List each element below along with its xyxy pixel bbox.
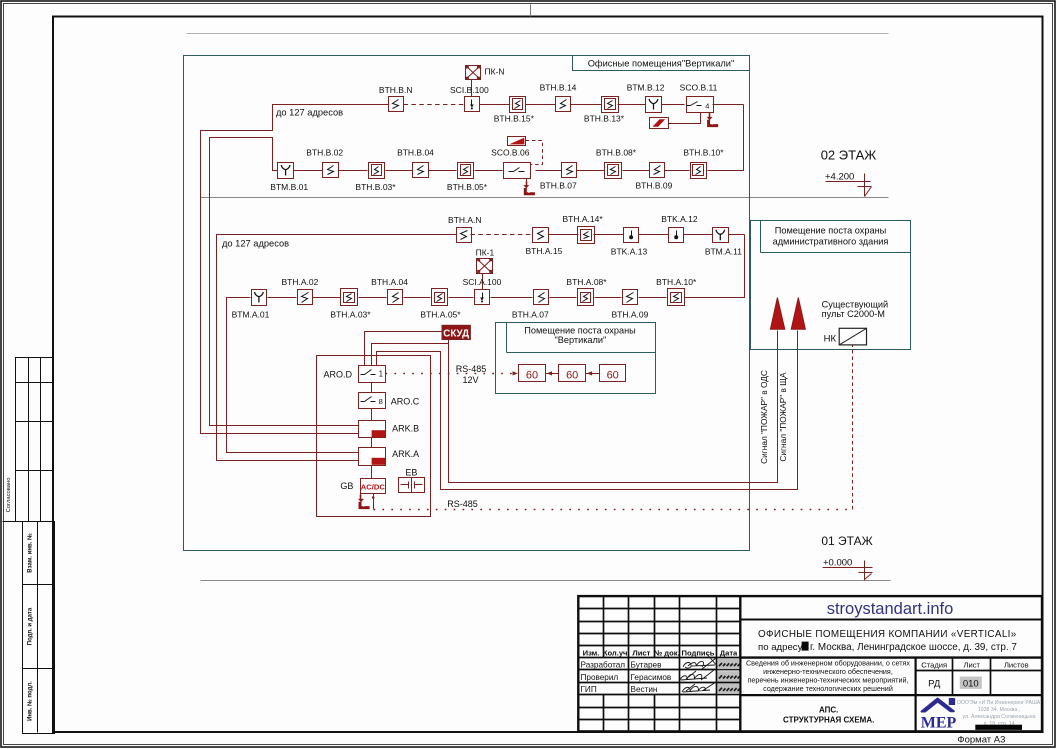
svg-text:BTM.B.01: BTM.B.01	[270, 182, 308, 192]
svg-text:РД: РД	[928, 679, 941, 690]
call point BTM.A.01	[252, 290, 267, 306]
svg-text:Проверил: Проверил	[581, 673, 619, 682]
svg-text:BTH.B.09: BTH.B.09	[635, 181, 672, 191]
manual call point ПК-N	[466, 66, 481, 80]
detector BTH.A.08*	[578, 289, 594, 306]
wire B1 dashed segment	[404, 104, 465, 106]
wire 60#3-60#2 arrow	[586, 373, 600, 375]
svg-text:Лист: Лист	[632, 648, 650, 657]
svg-text:г. Москва, Ленинградское шоссе: г. Москва, Ленинградское шоссе, д. 39, с…	[810, 642, 1017, 653]
detector BTH.B.08*	[605, 163, 622, 179]
wire 60#2-60#1 arrow	[546, 373, 559, 375]
svg-text:60: 60	[607, 369, 619, 381]
svg-text:до 127 адресов: до 127 адресов	[276, 108, 343, 118]
svg-text:+4.200: +4.200	[825, 172, 854, 183]
svg-text:Бутарев: Бутарев	[631, 660, 662, 669]
svg-text:BTH.A.08*: BTH.A.08*	[566, 277, 607, 287]
wire ARK.B-ARK.A	[371, 438, 373, 448]
relay НК box	[839, 328, 866, 345]
svg-text:BTK.A.13: BTK.A.13	[611, 246, 648, 256]
wire B2 segments	[294, 170, 323, 172]
svg-text:12V: 12V	[462, 375, 478, 385]
ground sounder below AC/DC	[360, 494, 362, 497]
svg-text:SCI.B.100: SCI.B.100	[450, 85, 489, 95]
svg-text:1: 1	[379, 370, 384, 379]
output module SCO.B.06	[504, 163, 531, 179]
svg-text:BTH.B.04: BTH.B.04	[397, 147, 434, 157]
cell 010	[960, 677, 982, 689]
stage table	[952, 658, 954, 696]
svg-text:BTH.B.14: BTH.B.14	[540, 83, 577, 93]
svg-text:СТРУКТУРНАЯ СХЕМА.: СТРУКТУРНАЯ СХЕМА.	[783, 716, 874, 725]
svg-text:BTH.A.14*: BTH.A.14*	[563, 214, 604, 224]
panel enclosure	[317, 356, 431, 517]
detector BTH.A.15	[533, 228, 549, 243]
wire ARO.D to signal 2	[377, 331, 798, 490]
svg-text:№ док.: № док.	[654, 648, 680, 657]
detector BTH.A.N	[457, 228, 472, 243]
svg-text:Герасимов: Герасимов	[631, 673, 672, 682]
signatures scribble	[680, 653, 718, 692]
svg-text:Помещение поста охраны: Помещение поста охраны	[775, 226, 887, 236]
signal arrow в ЩА	[791, 298, 805, 330]
svg-text:ARK.B: ARK.B	[392, 423, 419, 433]
svg-text:SCI.A.100: SCI.A.100	[463, 277, 502, 287]
detector BTH.B.02	[323, 163, 339, 178]
detector BTH.B.10*	[691, 163, 707, 179]
device ARK.B	[359, 421, 386, 438]
svg-text:BTH.A.15: BTH.A.15	[525, 246, 562, 256]
svg-text:административного здания: административного здания	[773, 236, 889, 246]
svg-text:SCO.B.06: SCO.B.06	[491, 147, 530, 157]
svg-text:1038 34, Москва ,: 1038 34, Москва ,	[978, 707, 1020, 713]
company redaction bar	[975, 725, 1022, 730]
detector BTH.B.13*	[602, 97, 619, 113]
svg-text:BTM.A.11: BTM.A.11	[705, 246, 742, 256]
svg-text:EB: EB	[405, 467, 417, 477]
zone title box	[573, 56, 750, 71]
detector BTK.A.12	[669, 228, 684, 243]
svg-text:RS-485: RS-485	[456, 364, 487, 374]
signal arrow в ОДС	[770, 298, 784, 330]
detector BTH.B.14	[556, 97, 571, 112]
sounder below SCO.B.11	[709, 113, 711, 114]
svg-text:BTH.B.05*: BTH.B.05*	[447, 182, 488, 192]
floor line 02	[201, 197, 889, 199]
arrowhead into 60	[513, 371, 518, 375]
wire ARK.A-AC/DC	[371, 466, 373, 479]
svg-text:Кол.уч.: Кол.уч.	[603, 648, 630, 657]
bus RS-485 to НК dotted	[374, 509, 853, 511]
wire ARO.D to signal 1	[372, 331, 778, 483]
svg-text:BTM.B.12: BTM.B.12	[627, 83, 665, 93]
guard room Вертикаль box	[496, 323, 656, 394]
device ARK.A	[359, 448, 386, 466]
wire A1 segments	[549, 234, 579, 236]
svg-text:по адресу: по адресу	[758, 642, 803, 653]
elevation mark 01	[823, 567, 873, 569]
svg-text:ООО'Эм «И Пи Инженеринг РАША': ООО'Эм «И Пи Инженеринг РАША'	[957, 700, 1041, 706]
beacon lamp loop B2	[508, 137, 526, 146]
svg-text:Помещение поста охраны: Помещение поста охраны	[524, 325, 636, 335]
date redaction 1	[718, 659, 740, 669]
svg-text:Взам. инв. №: Взам. инв. №	[27, 533, 34, 573]
detector BTH.A.09	[623, 290, 638, 305]
admin guard room box	[751, 221, 911, 350]
wire B1 segments	[480, 104, 510, 106]
zone box Офисные помещения	[184, 56, 750, 551]
detector BTH.B.09	[650, 163, 665, 178]
detector BTH.B.05*	[458, 163, 474, 179]
wire loop B1 left run	[201, 105, 389, 434]
call point BTM.A.11	[713, 228, 729, 243]
module SCI.B.100	[465, 97, 480, 112]
svg-text:8: 8	[379, 397, 383, 406]
detector BTH.B.04	[413, 163, 429, 178]
svg-text:BTH.A.09: BTH.A.09	[611, 309, 648, 319]
detector BTH.A.05*	[432, 289, 448, 306]
sounder below SCO.B.06	[526, 179, 528, 182]
svg-text:Листов: Листов	[1004, 661, 1029, 670]
annunciator 60 #2	[559, 365, 586, 382]
svg-text:AC/DC: AC/DC	[361, 482, 386, 491]
section sheet info divider	[914, 658, 916, 732]
detector BTH.A.04	[388, 290, 403, 305]
manual call point ПК-1	[477, 259, 493, 274]
svg-text:BTH.B.07: BTH.B.07	[540, 181, 577, 191]
detector BTH.A.07	[534, 290, 549, 305]
svg-text:SCO.B.11: SCO.B.11	[680, 83, 718, 93]
svg-text:01 ЭТАЖ: 01 ЭТАЖ	[821, 534, 872, 548]
detector BTH.B.N	[389, 97, 404, 112]
svg-text:до 127 адресов: до 127 адресов	[222, 238, 289, 248]
svg-text:BTM.A.01: BTM.A.01	[232, 309, 270, 319]
svg-text:BTH.B.10*: BTH.B.10*	[683, 147, 724, 157]
beacon lamp loop B	[650, 118, 669, 129]
logo MEP	[922, 699, 954, 712]
svg-text:Лист: Лист	[964, 661, 981, 670]
svg-text:stroystandart.info: stroystandart.info	[827, 600, 954, 618]
filing strip table	[23, 522, 55, 734]
svg-text:Подпись: Подпись	[682, 648, 715, 657]
detector BTH.B.07	[562, 163, 577, 178]
svg-text:ARO.D: ARO.D	[323, 370, 352, 380]
module SCI.A.100	[475, 290, 490, 305]
svg-text:ARO.C: ARO.C	[391, 396, 420, 406]
wire SCO.B.11 to beacon	[669, 113, 701, 124]
section stroystandart	[740, 619, 1042, 621]
svg-text:пульт С2000-М: пульт С2000-М	[822, 309, 885, 319]
wire loop A2 left run	[227, 298, 359, 453]
svg-text:Согласовано: Согласовано	[6, 478, 12, 513]
svg-text:BTH.B.03*: BTH.B.03*	[355, 182, 396, 192]
floor line 01	[201, 580, 891, 582]
svg-text:ул. Александра Солженицына: ул. Александра Солженицына	[963, 714, 1036, 720]
svg-text:ГИП: ГИП	[581, 685, 597, 694]
svg-text:НК: НК	[824, 333, 837, 344]
wire ПК-N to SCI.B.100	[471, 80, 473, 97]
svg-text:Дата: Дата	[720, 648, 738, 657]
elevation mark 02	[826, 181, 871, 183]
wire СКУД to ARO.D	[365, 332, 443, 366]
svg-text:BTH.A.04: BTH.A.04	[371, 277, 408, 287]
annunciator 60 #1	[519, 365, 546, 382]
riser to НК dashed	[852, 346, 854, 510]
svg-text:BTH.A.07: BTH.A.07	[512, 309, 549, 319]
annunciator 60 #3	[600, 365, 626, 382]
svg-text:BTH.B.02: BTH.B.02	[306, 147, 343, 157]
detector BTH.B.03*	[369, 163, 385, 179]
wire ARO.D-ARO.C	[371, 383, 373, 393]
svg-text:BTH.A.03*: BTH.A.03*	[330, 309, 371, 319]
svg-text:BTH.A.N: BTH.A.N	[448, 215, 482, 225]
svg-text:RS-485: RS-485	[447, 499, 478, 509]
svg-text:BTH.A.05*: BTH.A.05*	[420, 309, 461, 319]
svg-text:Стадия: Стадия	[921, 661, 947, 670]
date redaction 3	[718, 684, 740, 694]
detector BTH.B.15*	[510, 97, 526, 113]
bus RS-485 12V dotted	[386, 373, 517, 375]
wire A2 segments	[268, 297, 297, 299]
svg-text:ПК-1: ПК-1	[476, 247, 495, 257]
svg-text:BTH.A.10*: BTH.A.10*	[656, 277, 697, 287]
device ARO.C	[359, 393, 386, 409]
svg-text:GB: GB	[340, 481, 353, 491]
svg-text:ПК-N: ПК-N	[485, 67, 505, 77]
svg-text:60: 60	[566, 369, 578, 381]
detector BTH.A.14*	[578, 227, 595, 244]
wire loop B2 left run	[210, 138, 359, 426]
svg-text:Изм.: Изм.	[583, 648, 600, 657]
date redaction 2	[718, 671, 740, 681]
svg-text:+0.000: +0.000	[823, 558, 852, 569]
wire СКУД bottom stub	[448, 340, 450, 344]
wire ARO.C-ARK.B	[371, 409, 373, 421]
svg-text:BTH.A.02: BTH.A.02	[281, 277, 318, 287]
device ARO.D	[359, 366, 386, 383]
svg-text:ARK.A: ARK.A	[392, 449, 419, 459]
svg-text:BTK.A.12: BTK.A.12	[661, 214, 698, 224]
svg-text:Вестин: Вестин	[631, 685, 658, 694]
svg-text:Сигнал "ПОЖАР" в ОДС: Сигнал "ПОЖАР" в ОДС	[759, 370, 769, 464]
svg-text:СКУД: СКУД	[443, 329, 469, 340]
svg-text:Подп. и дата: Подп. и дата	[28, 607, 34, 645]
svg-text:BTH.B.13*: BTH.B.13*	[584, 113, 625, 123]
detector BTH.A.10*	[668, 289, 685, 306]
output module SCO.B.11	[687, 97, 714, 113]
wire loop A right drop	[685, 235, 745, 298]
svg-text:4: 4	[705, 101, 709, 110]
wire loop B right drop	[708, 105, 744, 171]
svg-text:Офисные помещения"Вертикали": Офисные помещения"Вертикали"	[588, 59, 735, 69]
title block grid	[578, 596, 1042, 731]
svg-text:Существующий: Существующий	[822, 299, 889, 309]
svg-text:Разработал: Разработал	[581, 660, 626, 669]
detector BTK.A.13	[624, 228, 639, 243]
detector BTH.A.03*	[341, 289, 358, 306]
svg-text:02 ЭТАЖ: 02 ЭТАЖ	[821, 148, 877, 163]
detector BTH.A.02	[298, 290, 313, 305]
wire loop A1 left run	[217, 235, 457, 461]
svg-text:BTH.B.N: BTH.B.N	[379, 85, 413, 95]
svg-text:BTH.B.08*: BTH.B.08*	[596, 147, 637, 157]
svg-text:содержание технологических реш: содержание технологических решений	[763, 684, 893, 693]
fold mark tick	[530, 5, 532, 17]
svg-text:Сигнал "ПОЖАР" в ЩА: Сигнал "ПОЖАР" в ЩА	[778, 372, 788, 462]
fold line top	[187, 33, 889, 35]
svg-text:ОФИСНЫЕ ПОМЕЩЕНИЯ КОМПАНИИ «VE: ОФИСНЫЕ ПОМЕЩЕНИЯ КОМПАНИИ «VERTICALI»	[758, 629, 1017, 640]
wire AC/DC to RS-485 bus	[373, 494, 375, 510]
wire A1 dashed segment	[471, 234, 533, 236]
svg-text:60: 60	[526, 369, 538, 381]
svg-text:"Вертикали": "Вертикали"	[554, 335, 606, 345]
battery EB	[399, 478, 425, 493]
node СКУД	[442, 325, 470, 339]
svg-text:BTH.B.15*: BTH.B.15*	[494, 113, 535, 123]
svg-text:Инв. № подл.: Инв. № подл.	[27, 681, 34, 721]
svg-text:МЕР: МЕР	[921, 715, 957, 732]
svg-text:010: 010	[963, 679, 979, 690]
svg-text:Формат А3: Формат А3	[957, 735, 1005, 746]
svg-text:АПС.: АПС.	[819, 706, 838, 715]
call point BTM.B.12	[646, 97, 662, 113]
approval table (Согласовано)	[16, 358, 53, 522]
call point BTM.B.01	[278, 163, 294, 179]
wire beacon to SCO.B.06 dashed	[526, 141, 543, 165]
power unit GB AC/DC	[361, 479, 386, 494]
section project name	[740, 656, 1042, 658]
wire ПК-1 to SCI.A.100	[482, 274, 484, 290]
